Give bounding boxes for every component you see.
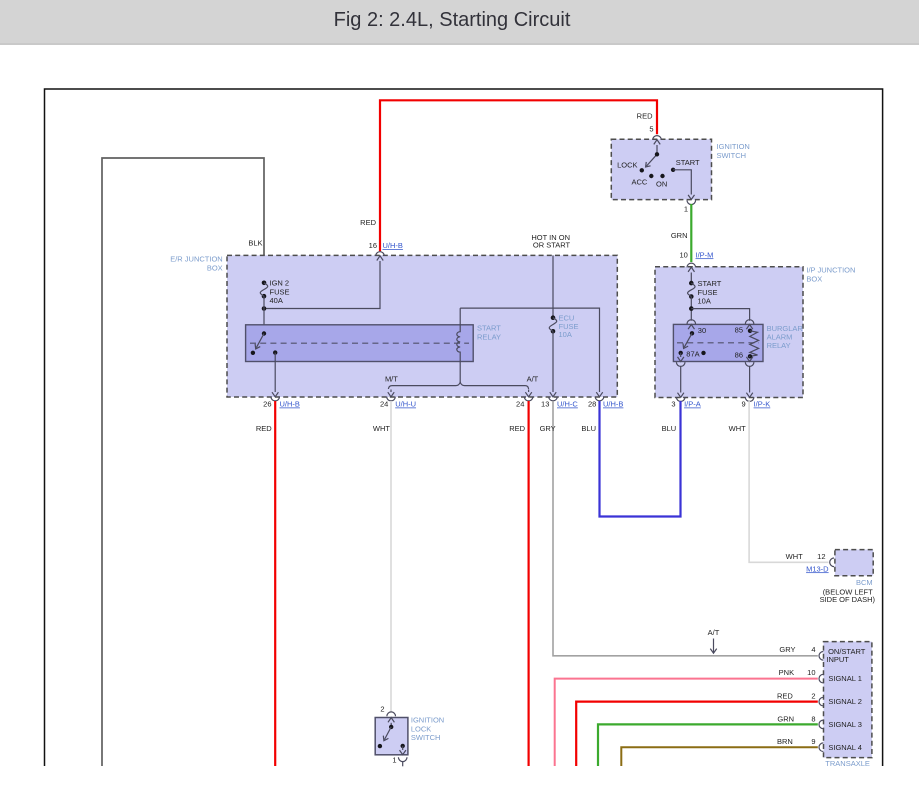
svg-text:U/H-B: U/H-B <box>383 241 403 250</box>
brace M/T - A/T splitter <box>388 382 528 389</box>
connector arc pin 85 <box>745 320 754 324</box>
svg-text:INPUT: INPUT <box>826 655 849 664</box>
wire 86 down out of relay <box>746 356 752 361</box>
svg-text:BRN: BRN <box>777 737 793 746</box>
coil start relay <box>457 308 460 383</box>
wire pin1 down <box>400 746 406 755</box>
svg-text:8: 8 <box>811 714 815 723</box>
node 86 coil bottom <box>748 354 752 358</box>
node output contact to pin 26 <box>273 350 277 354</box>
svg-text:RED: RED <box>256 424 272 433</box>
connector arc pin 2 <box>387 712 396 716</box>
arrow up into pin 10 <box>688 267 694 272</box>
wire START output inside switch <box>673 170 691 195</box>
svg-text:13: 13 <box>541 400 549 409</box>
svg-text:RELAY: RELAY <box>767 341 791 350</box>
svg-text:12: 12 <box>817 552 825 561</box>
svg-text:BOX: BOX <box>806 275 822 284</box>
arrow down to pin 1 <box>688 195 694 200</box>
svg-text:START: START <box>676 158 700 167</box>
wire PNK signal 1 <box>555 679 818 766</box>
switch lever burglar relay <box>684 333 692 347</box>
svg-text:M/T: M/T <box>385 375 398 384</box>
connector arcs bottom edge I/P box <box>676 397 685 401</box>
node ON contact <box>660 174 664 178</box>
svg-text:4: 4 <box>811 645 815 654</box>
node ACC contact <box>649 174 653 178</box>
svg-text:24: 24 <box>380 400 388 409</box>
svg-text:IGN 2: IGN 2 <box>270 279 290 288</box>
svg-text:GRY: GRY <box>779 645 795 654</box>
svg-text:SIGNAL 4: SIGNAL 4 <box>828 743 862 752</box>
svg-text:WHT: WHT <box>786 552 803 561</box>
connector arc pin 8 <box>819 720 823 729</box>
arrow up pin 30 <box>688 325 694 330</box>
svg-text:3: 3 <box>671 400 675 409</box>
wire stub below pin 1 <box>402 762 404 767</box>
svg-text:START: START <box>698 279 722 288</box>
svg-text:U/H-C: U/H-C <box>557 400 578 409</box>
connector arc pin 9 <box>819 743 823 752</box>
wire BLK loop from left side into E/R junction box <box>102 158 264 766</box>
svg-text:U/H-U: U/H-U <box>395 400 416 409</box>
node fuse output junction <box>262 306 267 311</box>
svg-text:IGNITION: IGNITION <box>411 716 444 725</box>
svg-text:E/R JUNCTION: E/R JUNCTION <box>170 255 223 264</box>
svg-text:SIGNAL 1: SIGNAL 1 <box>828 674 862 683</box>
wire GRY from pin 13 to ON/START INPUT <box>553 401 818 656</box>
svg-text:BLU: BLU <box>581 424 596 433</box>
svg-text:BLK: BLK <box>248 239 262 248</box>
arrow down pin 13 <box>550 392 556 397</box>
arrow up pin 85 <box>746 325 752 330</box>
svg-text:Fig 2: 2.4L, Starting Circuit: Fig 2: 2.4L, Starting Circuit <box>334 9 571 31</box>
wire ECU fuse to pin 13 <box>552 331 554 392</box>
svg-text:87A: 87A <box>686 350 699 359</box>
node NC contact <box>251 351 255 355</box>
connector arc pin 4 <box>819 652 823 661</box>
svg-text:10A: 10A <box>698 297 711 306</box>
svg-text:5: 5 <box>649 125 653 134</box>
svg-text:LOCK: LOCK <box>617 160 637 169</box>
node START contact <box>671 168 675 172</box>
arrow up into pin 5 <box>654 140 660 145</box>
wire RED battery feed to ignition switch pin 5 and fuse output pin 16 <box>380 100 657 251</box>
wire coil feed to pin 28 <box>460 308 599 392</box>
svg-text:WHT: WHT <box>373 424 390 433</box>
ignition switch box <box>611 139 711 199</box>
connector arc pin 5 <box>653 136 662 140</box>
node relay pole <box>690 331 694 335</box>
svg-text:SWITCH: SWITCH <box>411 733 441 742</box>
svg-text:RED: RED <box>777 692 793 701</box>
node spare contact <box>701 351 705 355</box>
svg-text:BOX: BOX <box>207 264 223 273</box>
node pole dot <box>655 152 659 156</box>
svg-text:40A: 40A <box>270 296 283 305</box>
svg-text:PNK: PNK <box>779 668 794 677</box>
wire pole <box>390 723 392 727</box>
arrow up pin 2 <box>388 718 394 723</box>
wire ECU fuse feed (HOT IN ON OR START) <box>552 255 554 317</box>
BCM connector <box>830 558 834 567</box>
fuse IGN 2 40A <box>262 281 267 286</box>
svg-text:SIDE OF DASH): SIDE OF DASH) <box>820 595 876 604</box>
arrow down pin 28 <box>596 392 602 397</box>
wire junction to pin 85 <box>691 309 749 321</box>
wire contact to pin 26 <box>274 353 276 392</box>
wire BLU from pin 28 to pin 3 <box>600 401 681 517</box>
svg-text:ON: ON <box>656 179 667 188</box>
connector arc pin 2 <box>819 697 823 706</box>
svg-text:RED: RED <box>509 424 525 433</box>
svg-text:I/P-K: I/P-K <box>754 400 771 409</box>
svg-text:16: 16 <box>369 241 377 250</box>
wire GRN ignition switch to I/P junction box <box>690 204 692 262</box>
E/R junction box <box>227 255 617 397</box>
connector arc relay bottom pin 86 <box>745 362 754 366</box>
arrow down pin 26 <box>272 392 278 397</box>
border frame <box>45 89 883 766</box>
svg-text:M13-D: M13-D <box>806 564 829 573</box>
svg-text:10: 10 <box>679 250 687 259</box>
svg-text:BCM: BCM <box>856 578 873 587</box>
wire fuse to junction <box>690 297 692 321</box>
module BCM box <box>835 550 873 576</box>
svg-text:WHT: WHT <box>729 424 746 433</box>
svg-text:IGNITION: IGNITION <box>717 142 750 151</box>
svg-text:TRANSAXLE: TRANSAXLE <box>825 759 870 768</box>
I/P junction box <box>655 267 803 398</box>
switch lever start relay <box>256 334 264 348</box>
svg-text:OR START: OR START <box>533 241 571 250</box>
arrow down pin 24 A/T <box>525 390 531 397</box>
svg-text:I/P JUNCTION: I/P JUNCTION <box>806 266 855 275</box>
relay BURGLAR ALARM RELAY <box>673 324 763 361</box>
header bar <box>0 0 919 43</box>
connector arc pin 10 (top edge I/P box) <box>687 263 696 267</box>
connector arc pin 1 <box>687 200 696 204</box>
svg-text:26: 26 <box>263 400 271 409</box>
fuse ECU 10A <box>551 315 556 320</box>
svg-text:GRY: GRY <box>540 424 556 433</box>
svg-text:SIGNAL 2: SIGNAL 2 <box>828 697 862 706</box>
node LOCK contact <box>640 168 644 172</box>
connector arc relay bottom pin 87A <box>676 362 685 366</box>
arrow down pin 3 <box>678 393 684 398</box>
connector arc pin 30 <box>687 320 696 324</box>
node pin 1 contact <box>401 744 405 748</box>
svg-text:U/H-B: U/H-B <box>603 400 623 409</box>
svg-text:24: 24 <box>516 400 524 409</box>
svg-text:RELAY: RELAY <box>477 333 501 342</box>
wire pin16 feed inside E/R box <box>264 261 380 309</box>
svg-text:A/T: A/T <box>708 628 720 637</box>
wire RED signal 2 <box>576 702 818 766</box>
wire to pin 9 <box>749 366 751 393</box>
node relay pole <box>262 331 266 335</box>
svg-text:A/T: A/T <box>527 375 539 384</box>
svg-text:28: 28 <box>588 400 596 409</box>
wire BRN signal 4 <box>621 747 818 766</box>
coil zigzag burglar relay <box>750 331 759 357</box>
connector arc pin 16 (top edge E/R box) <box>376 252 385 256</box>
arrow down pin 24 M/T <box>388 390 394 397</box>
arrow down pin 9 <box>746 393 752 398</box>
node pole <box>389 725 393 729</box>
svg-text:SWITCH: SWITCH <box>717 151 747 160</box>
svg-text:9: 9 <box>742 400 746 409</box>
wire RED from pin 26 down <box>274 401 276 766</box>
node 87A contact <box>679 351 683 355</box>
node junction <box>689 306 694 311</box>
arrow up into pin 16 <box>377 256 383 261</box>
node contact <box>378 744 382 748</box>
connector arc pin 1 <box>398 757 407 761</box>
wire WHT from pin 9 to BCM <box>749 401 828 562</box>
wire fuse to relay pole <box>263 296 265 333</box>
switch lever lock switch <box>385 727 392 740</box>
wire WHT from pin 24 M/T to ignition lock switch <box>390 401 392 712</box>
svg-text:10: 10 <box>807 668 815 677</box>
svg-text:1: 1 <box>684 205 688 214</box>
wire to pin 3 <box>680 366 682 393</box>
svg-text:GRN: GRN <box>777 714 794 723</box>
svg-text:1: 1 <box>392 756 396 765</box>
svg-text:START: START <box>477 324 501 333</box>
ignition lock switch box <box>375 718 408 755</box>
fuse START 10A <box>689 281 694 286</box>
wire 87A down out of relay <box>678 353 684 362</box>
svg-text:U/H-B: U/H-B <box>280 400 300 409</box>
transaxle connector box <box>824 642 872 758</box>
svg-text:ACC: ACC <box>631 177 647 186</box>
svg-text:86: 86 <box>735 350 743 359</box>
wire pin10 to fuse <box>690 273 692 284</box>
svg-text:GRN: GRN <box>671 231 688 240</box>
svg-text:2: 2 <box>380 705 384 714</box>
wire pole ignition switch <box>656 145 658 154</box>
svg-text:85: 85 <box>735 326 743 335</box>
svg-text:I/P-M: I/P-M <box>696 250 714 259</box>
connector arcs bottom edge E/R box <box>271 397 280 401</box>
switch lever ignition <box>647 154 658 166</box>
svg-text:RED: RED <box>360 218 376 227</box>
svg-text:SIGNAL 3: SIGNAL 3 <box>828 720 862 729</box>
wire GRN signal 3 <box>598 724 818 766</box>
svg-text:9: 9 <box>811 737 815 746</box>
connector arc pin 10 <box>819 674 823 683</box>
svg-text:BLU: BLU <box>662 424 677 433</box>
svg-text:10A: 10A <box>559 330 572 339</box>
relay START RELAY <box>246 325 474 362</box>
wire RED from pin 24 A/T down <box>527 401 529 766</box>
svg-text:2: 2 <box>811 692 815 701</box>
svg-text:RED: RED <box>637 112 653 121</box>
svg-text:I/P-A: I/P-A <box>684 400 701 409</box>
node 85 coil top <box>748 329 752 333</box>
svg-text:30: 30 <box>698 326 706 335</box>
